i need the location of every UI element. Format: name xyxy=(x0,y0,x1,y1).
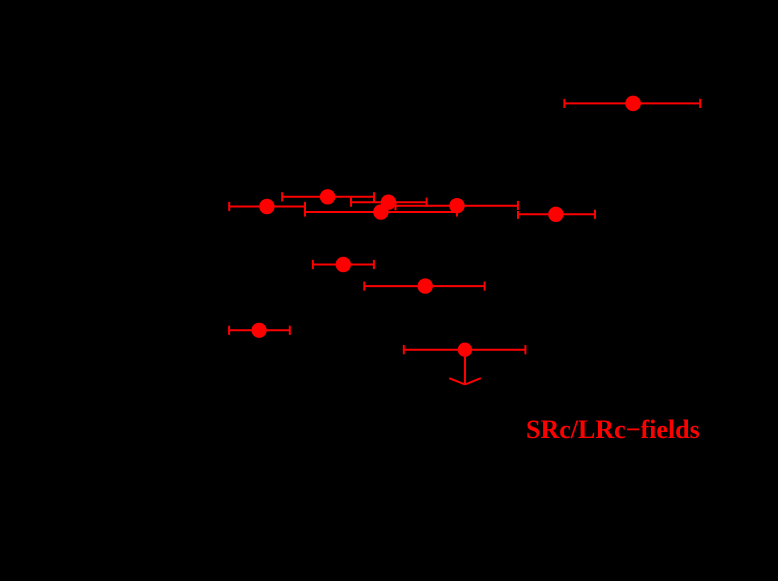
error bar D xyxy=(351,201,427,203)
upper-limit arrow K xyxy=(464,352,466,384)
data point J xyxy=(252,323,267,338)
data point K xyxy=(458,343,472,357)
error bar E xyxy=(305,211,457,213)
error bar J xyxy=(229,329,290,331)
error bar H xyxy=(313,264,374,266)
error bar G xyxy=(518,213,595,215)
svg-text:SRc/LRc−fields: SRc/LRc−fields xyxy=(526,415,700,444)
error bar K xyxy=(404,349,526,351)
error bar I xyxy=(364,285,484,287)
data point C xyxy=(320,189,335,204)
data point D xyxy=(381,195,396,210)
error bar C xyxy=(282,196,374,198)
error bar F xyxy=(396,205,519,207)
data point A xyxy=(625,96,641,112)
data point B xyxy=(259,199,274,214)
error bar A xyxy=(564,102,700,104)
data point F xyxy=(449,198,464,213)
data point E xyxy=(373,204,388,219)
data point G xyxy=(548,207,563,222)
error bar B xyxy=(229,206,305,208)
data point I xyxy=(418,278,433,293)
data point H xyxy=(336,257,351,272)
